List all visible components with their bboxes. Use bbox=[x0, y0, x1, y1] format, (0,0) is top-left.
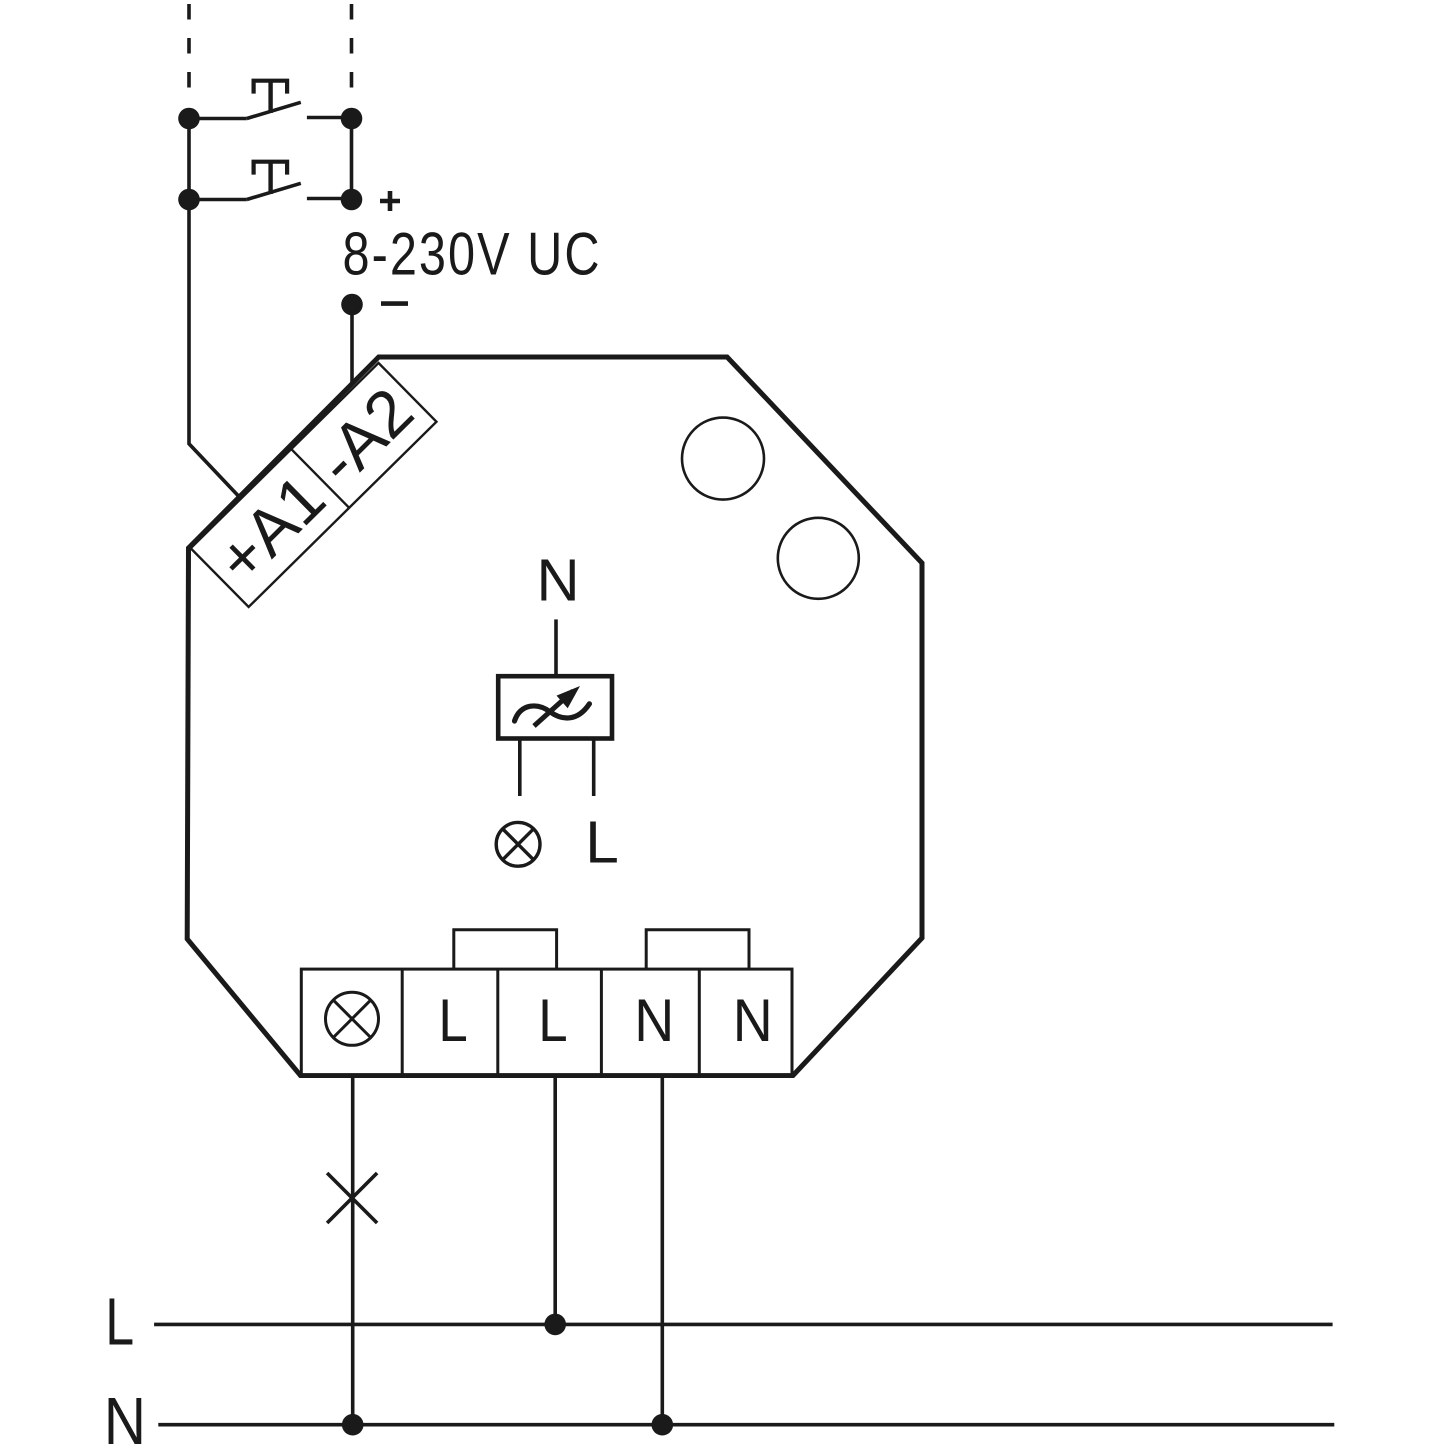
svg-text:L: L bbox=[438, 987, 467, 1054]
svg-text:N: N bbox=[104, 1384, 146, 1445]
svg-text:L: L bbox=[105, 1284, 134, 1359]
svg-text:L: L bbox=[585, 810, 619, 876]
svg-text:N: N bbox=[634, 987, 674, 1054]
svg-text:N: N bbox=[537, 548, 580, 614]
svg-text:N: N bbox=[733, 987, 773, 1054]
svg-text:8-230V UC: 8-230V UC bbox=[343, 221, 602, 288]
svg-text:L: L bbox=[538, 987, 567, 1054]
